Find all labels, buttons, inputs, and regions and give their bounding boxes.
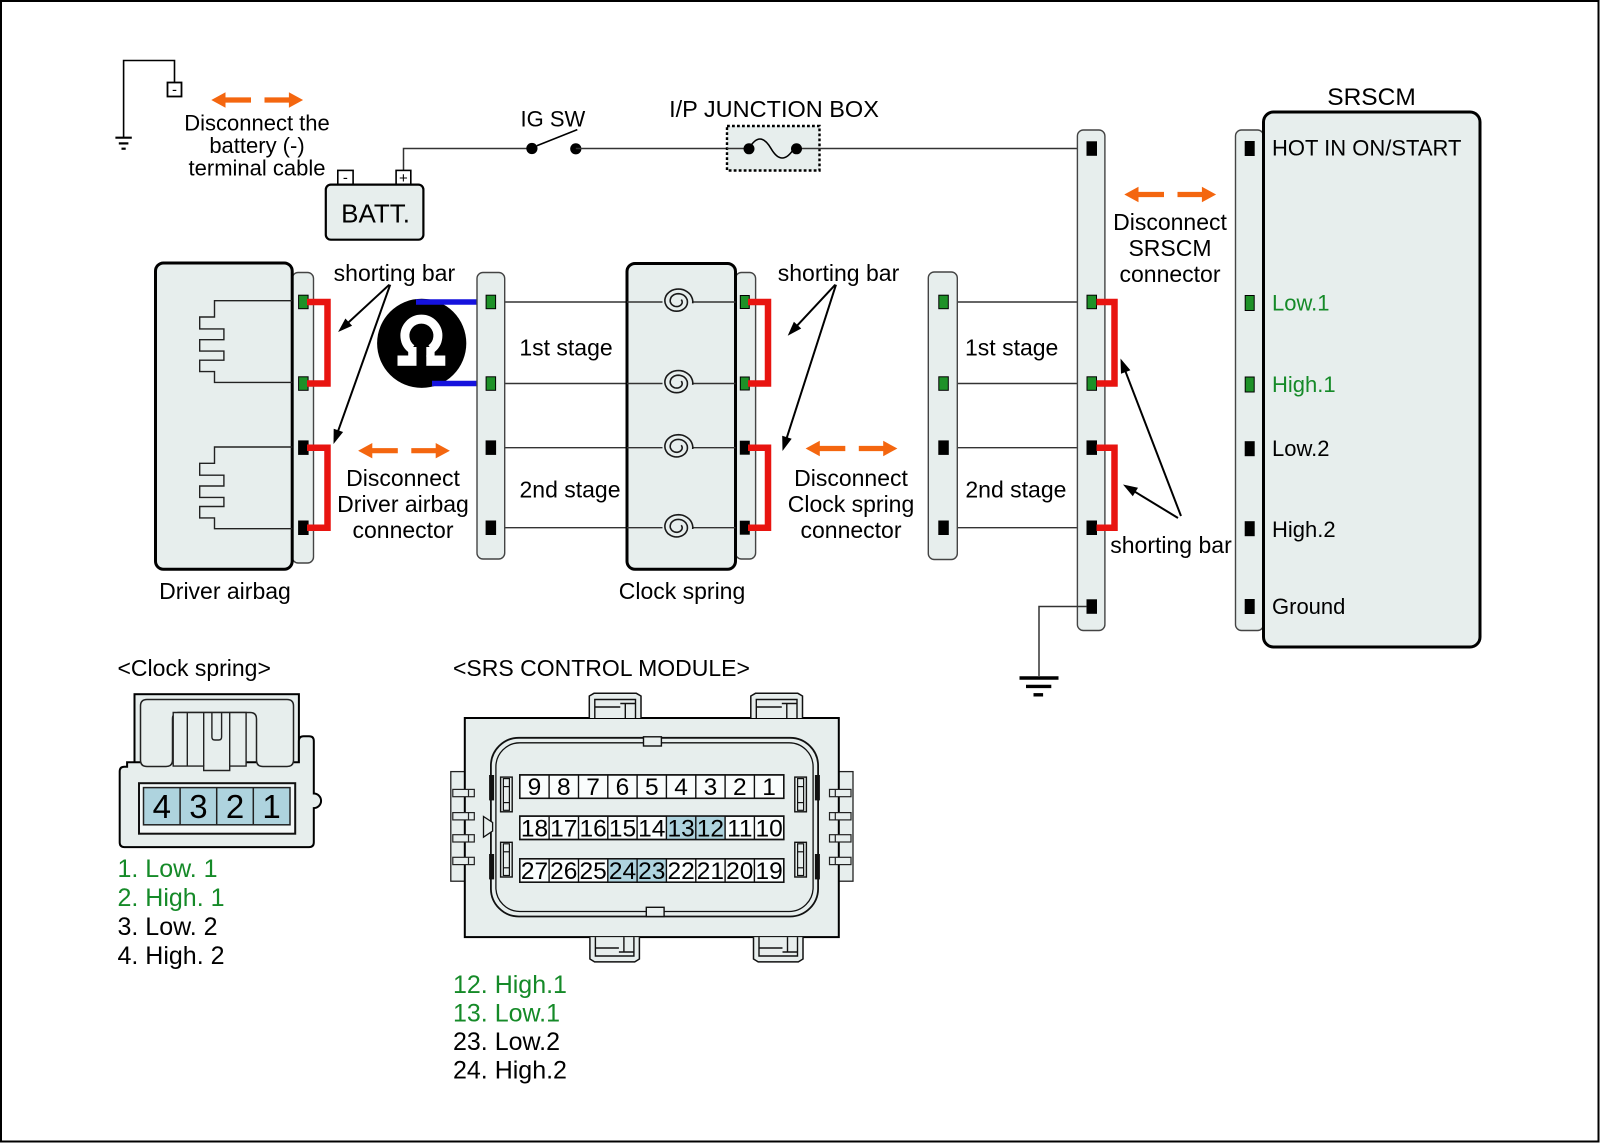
- C6 pin Ground: [1245, 600, 1254, 614]
- svg-text:23: 23: [638, 858, 665, 885]
- svg-text:6: 6: [616, 774, 630, 801]
- svg-text:26: 26: [550, 858, 577, 885]
- svg-text:18: 18: [521, 815, 548, 842]
- C5 pin High.1: [1087, 377, 1097, 391]
- svg-text:Low.1: Low.1: [1272, 291, 1330, 316]
- squib 1 (1st stage inflator): [200, 301, 293, 383]
- svg-text:1st stage: 1st stage: [965, 335, 1058, 361]
- svg-text:15: 15: [609, 815, 636, 842]
- svg-text:Driver airbag: Driver airbag: [337, 491, 469, 517]
- chassis ground G1: [115, 138, 131, 149]
- svg-text:4. High. 2: 4. High. 2: [118, 942, 225, 970]
- svg-text:23. Low.2: 23. Low.2: [453, 1028, 560, 1056]
- connector strip C3 (clock spring output side): [736, 273, 756, 560]
- C5 pin Low.1: [1087, 295, 1097, 309]
- svg-text:3: 3: [704, 774, 718, 801]
- battery BATT.: [338, 170, 353, 184]
- clock spring coil row 2: [627, 383, 663, 385]
- fuse F1: [727, 148, 749, 150]
- svg-text:Ground: Ground: [1272, 594, 1345, 619]
- svg-text:19: 19: [755, 858, 782, 885]
- svg-text:1: 1: [262, 788, 280, 825]
- svg-text:13. Low.1: 13. Low.1: [453, 1000, 560, 1028]
- ohmmeter test lead (blue) row 1: [416, 299, 489, 305]
- arrow: shorting bar to C3 bar 1: [796, 285, 835, 327]
- svg-text:3: 3: [189, 788, 207, 825]
- svg-text:24: 24: [609, 858, 636, 885]
- C5 pin Ground: [1087, 600, 1097, 614]
- svg-text:shorting bar: shorting bar: [1110, 532, 1232, 558]
- connector strip C5 (SRSCM harness connector): [1077, 130, 1105, 631]
- C2 pin 3: [486, 441, 496, 455]
- arrow: shorting bar to C1 bar 2: [338, 285, 391, 433]
- C5 pin Low.2: [1087, 441, 1097, 455]
- svg-text:11: 11: [727, 815, 752, 842]
- svg-text:16: 16: [579, 815, 606, 842]
- svg-text:Clock spring: Clock spring: [788, 491, 915, 517]
- svg-text:21: 21: [697, 858, 724, 885]
- svg-text:<Clock spring>: <Clock spring>: [118, 655, 271, 681]
- ohmmeter test lead (blue) row 2: [432, 381, 489, 387]
- connector strip C6 (SRSCM side connector): [1236, 130, 1264, 631]
- C3 pin 3: [740, 441, 749, 454]
- svg-text:SRSCM: SRSCM: [1327, 84, 1415, 111]
- svg-text:2: 2: [226, 788, 244, 825]
- arrow: shorting bar to C3 bar 2: [786, 285, 836, 440]
- SRSCM module box: [1264, 112, 1481, 647]
- svg-text:3. Low. 2: 3. Low. 2: [118, 913, 218, 941]
- wire: battery negative cable: [124, 61, 175, 138]
- wire: C5 ground pin to chassis ground: [1039, 607, 1087, 677]
- wire: C2 to clock spring row 4: [495, 527, 627, 529]
- battery negative cable terminal box: [168, 83, 182, 97]
- I/P junction box: [727, 126, 820, 171]
- C3 pin 1: [740, 296, 749, 309]
- svg-text:2nd stage: 2nd stage: [519, 477, 620, 503]
- svg-text:17: 17: [550, 815, 577, 842]
- C6 pin High.2: [1245, 522, 1254, 536]
- disconnect arrows (battery): [211, 92, 303, 107]
- C1 pin 4: [299, 521, 309, 535]
- wire: C4 to C5 row 1: [943, 301, 1091, 303]
- svg-text:2nd stage: 2nd stage: [965, 477, 1066, 503]
- arrow: shorting bar to C5 bar 2: [1133, 491, 1178, 518]
- C4 pin 4: [939, 521, 949, 535]
- clock spring connector front view: [120, 694, 321, 847]
- svg-text:2. High. 1: 2. High. 1: [118, 884, 225, 912]
- arrow: shorting bar to C1 bar 1: [347, 285, 389, 324]
- svg-text:IG SW: IG SW: [521, 106, 586, 131]
- svg-text:HOT IN ON/START: HOT IN ON/START: [1272, 136, 1461, 161]
- clock spring coil row 3: [627, 447, 663, 449]
- C1 pin 3: [299, 441, 309, 455]
- wire: IG SW to junction box: [576, 148, 727, 150]
- svg-text:13: 13: [667, 815, 694, 842]
- svg-text:4: 4: [674, 774, 688, 801]
- svg-text:4: 4: [153, 788, 171, 825]
- C5 pin High.2: [1087, 521, 1097, 535]
- C6 pin Low.2: [1245, 442, 1254, 456]
- clock spring coil row 1: [627, 301, 663, 303]
- C2 pin 4: [486, 521, 496, 535]
- shorting bar on C1 pins 1-2: [307, 302, 328, 384]
- svg-text:I/P JUNCTION BOX: I/P JUNCTION BOX: [669, 96, 879, 122]
- SRSCM connector pin row 18-10: [520, 815, 784, 842]
- wire: C4 to C5 row 4: [943, 527, 1091, 529]
- arrow: shorting bar to C5 bar 1: [1125, 370, 1181, 516]
- svg-text:Disconnect: Disconnect: [794, 465, 908, 491]
- svg-text:25: 25: [579, 858, 606, 885]
- wire: C2 to clock spring row 3: [495, 447, 627, 449]
- svg-text:shorting bar: shorting bar: [778, 260, 900, 286]
- shorting bar on C5 pins Low.1/High.1: [1097, 302, 1115, 384]
- svg-text:connector: connector: [800, 517, 901, 543]
- SRSCM connector pin row 27-19: [520, 858, 784, 885]
- svg-text:5: 5: [645, 774, 659, 801]
- svg-text:SRSCM: SRSCM: [1128, 235, 1211, 261]
- svg-text:battery (-): battery (-): [209, 133, 304, 158]
- svg-text:Disconnect the: Disconnect the: [184, 111, 330, 136]
- C4 pin 1: [939, 295, 949, 309]
- svg-text:8: 8: [557, 774, 571, 801]
- C6 pin HOT: [1245, 142, 1254, 156]
- svg-text:7: 7: [586, 774, 600, 801]
- svg-text:9: 9: [528, 774, 542, 801]
- disconnect arrows (driver airbag connector): [358, 443, 450, 458]
- svg-text:27: 27: [521, 858, 548, 885]
- C2 pin 2: [486, 377, 496, 391]
- svg-text:1. Low. 1: 1. Low. 1: [118, 855, 218, 883]
- svg-text:connector: connector: [352, 517, 453, 543]
- svg-text:12. High.1: 12. High.1: [453, 971, 567, 999]
- svg-text:<SRS CONTROL MODULE>: <SRS CONTROL MODULE>: [453, 655, 750, 681]
- svg-text:Clock spring: Clock spring: [619, 578, 746, 604]
- clock spring coil row 4: [627, 527, 663, 529]
- driver airbag module box: [156, 263, 293, 569]
- C3 pin 4: [740, 521, 749, 534]
- svg-text:1: 1: [762, 774, 776, 801]
- disconnect arrows (clock spring connector): [806, 441, 898, 456]
- svg-text:12: 12: [697, 815, 724, 842]
- svg-text:BATT.: BATT.: [341, 198, 410, 228]
- svg-text:24. High.2: 24. High.2: [453, 1057, 567, 1085]
- svg-text:-: -: [172, 82, 177, 99]
- wire: C4 to C5 row 2: [943, 383, 1091, 385]
- SRS control module connector front view: [451, 693, 853, 962]
- C4 pin 3: [939, 441, 949, 455]
- connector strip C1 (driver airbag side): [292, 273, 313, 564]
- shorting bar on C3 pins 1-2: [748, 302, 768, 384]
- svg-text:10: 10: [755, 815, 782, 842]
- shorting bar on C5 pins Low.2/High.2: [1097, 448, 1115, 528]
- shorting bar on C1 pins 3-4: [307, 448, 328, 528]
- C3 pin 2: [740, 377, 749, 390]
- wire: C2 to clock spring row 2: [495, 383, 627, 385]
- C6 pin High.1: [1245, 377, 1254, 392]
- C1 pin 1: [299, 295, 309, 309]
- svg-text:Disconnect: Disconnect: [346, 465, 460, 491]
- svg-text:1st stage: 1st stage: [519, 335, 612, 361]
- shorting bar on C3 pins 3-4: [748, 448, 768, 528]
- wire: junction box to SRSCM harness connector HOT pin: [820, 148, 1087, 150]
- clock spring box: [627, 264, 736, 570]
- chassis ground G2: [1020, 678, 1059, 695]
- svg-text:Low.2: Low.2: [1272, 436, 1330, 461]
- svg-text:Disconnect: Disconnect: [1113, 209, 1227, 235]
- svg-text:High.1: High.1: [1272, 372, 1336, 397]
- svg-text:connector: connector: [1119, 261, 1220, 287]
- svg-text:Driver airbag: Driver airbag: [159, 578, 291, 604]
- svg-text:22: 22: [667, 858, 694, 885]
- svg-text:High.2: High.2: [1272, 517, 1336, 542]
- disconnect arrows (SRSCM connector): [1124, 187, 1216, 202]
- squib 2 (2nd stage inflator): [200, 447, 293, 529]
- connector strip C4 (harness): [928, 272, 957, 560]
- connector strip C2 (clock spring input side): [477, 273, 505, 560]
- svg-text:terminal cable: terminal cable: [189, 156, 326, 181]
- C5 pin HOT: [1087, 142, 1097, 156]
- C6 pin Low.1: [1245, 296, 1254, 311]
- ohmmeter symbol: [377, 299, 466, 388]
- C2 pin 1: [486, 295, 496, 309]
- SRSCM connector pin row 9-1: [520, 774, 784, 801]
- svg-text:2: 2: [733, 774, 747, 801]
- wire: battery + to IG SW: [404, 149, 527, 171]
- C4 pin 2: [939, 377, 949, 391]
- svg-text:14: 14: [638, 815, 665, 842]
- svg-text:20: 20: [726, 858, 753, 885]
- C1 pin 2: [299, 377, 309, 391]
- svg-text:shorting bar: shorting bar: [334, 260, 456, 286]
- wire: C4 to C5 row 3: [943, 447, 1091, 449]
- wire: C2 to clock spring row 1: [495, 301, 627, 303]
